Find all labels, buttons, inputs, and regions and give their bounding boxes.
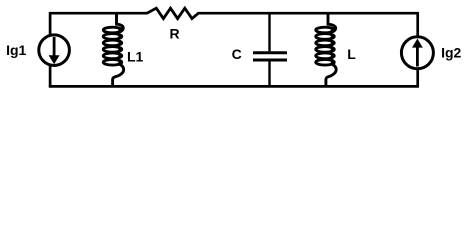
- svg-text:C: C: [232, 46, 242, 62]
- svg-text:L1: L1: [127, 49, 144, 65]
- svg-text:R: R: [170, 26, 180, 42]
- svg-text:L: L: [347, 46, 356, 62]
- svg-text:Ig2: Ig2: [441, 45, 461, 61]
- svg-text:Ig1: Ig1: [6, 42, 26, 58]
